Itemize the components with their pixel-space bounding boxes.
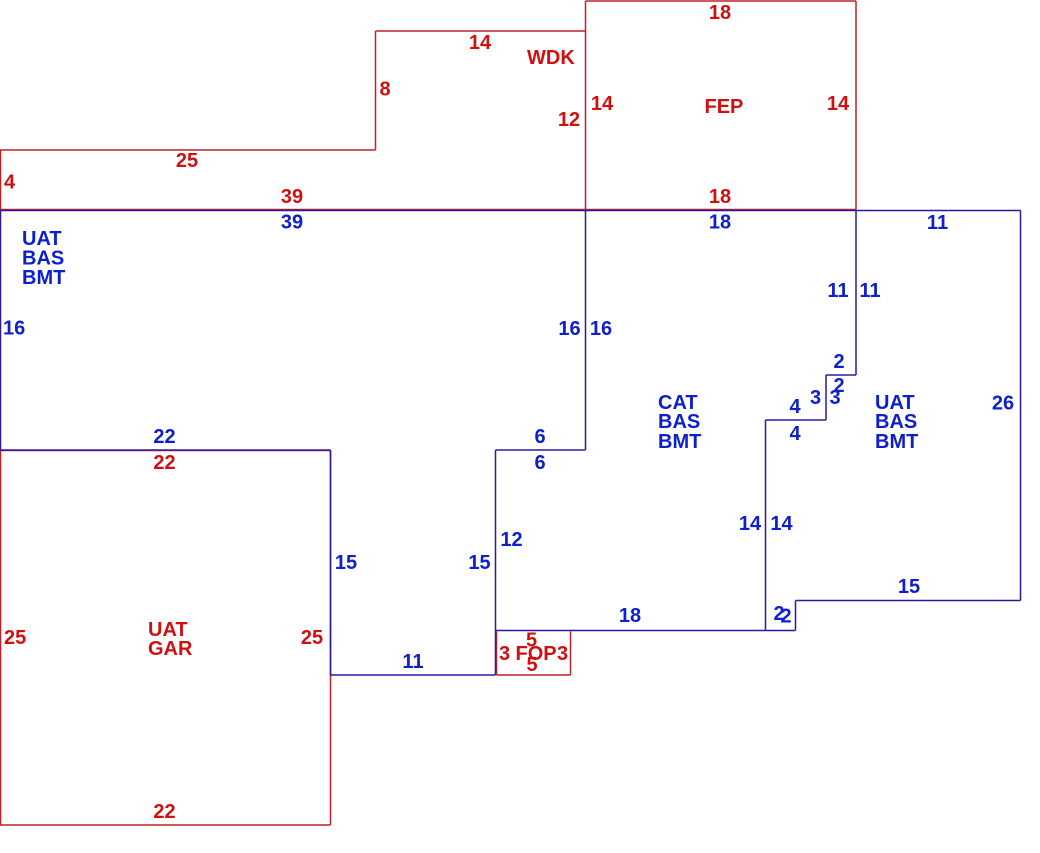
svg-text:18: 18 bbox=[619, 605, 641, 627]
svg-text:18: 18 bbox=[709, 186, 731, 208]
svg-text:15: 15 bbox=[898, 576, 920, 598]
svg-text:39: 39 bbox=[281, 186, 303, 208]
svg-text:16: 16 bbox=[590, 318, 612, 340]
CAT bottom wall 18 bbox=[496, 630, 796, 632]
step wall 4 bbox=[766, 419, 827, 421]
svg-text:FEP: FEP bbox=[705, 96, 744, 118]
svg-text:16: 16 bbox=[558, 318, 580, 340]
svg-text:BMT: BMT bbox=[875, 431, 918, 453]
svg-text:3: 3 bbox=[557, 643, 568, 665]
svg-text:25: 25 bbox=[176, 150, 198, 172]
svg-text:3: 3 bbox=[810, 387, 821, 409]
svg-text:26: 26 bbox=[992, 393, 1014, 415]
UAT BAS tab bottom wall 11 bbox=[331, 674, 496, 676]
svg-text:25: 25 bbox=[301, 627, 323, 649]
UAT right step wall 2 bbox=[795, 601, 797, 631]
svg-text:3: 3 bbox=[499, 643, 510, 665]
UAT GAR right wall bbox=[330, 451, 332, 826]
svg-text:15: 15 bbox=[468, 552, 490, 574]
UAT right east wall 26 bbox=[1020, 211, 1022, 601]
svg-text:WDK: WDK bbox=[527, 47, 575, 69]
svg-text:14: 14 bbox=[827, 93, 850, 115]
UAT GAR top wall bbox=[0, 450, 331, 452]
FOP right wall bbox=[570, 632, 572, 676]
WDK-FEP bottom wall (red 39+18) bbox=[0, 209, 857, 211]
svg-text:6: 6 bbox=[534, 452, 545, 474]
svg-text:8: 8 bbox=[379, 79, 390, 101]
UAT/CAT shared wall 6 bbox=[496, 449, 586, 451]
UAT BAS tab right wall 15 bbox=[495, 450, 497, 675]
svg-text:18: 18 bbox=[709, 2, 731, 24]
FEP left wall bbox=[585, 1, 587, 210]
main top wall (blue 39+18+11) bbox=[0, 210, 1021, 212]
svg-text:39: 39 bbox=[281, 212, 303, 234]
UAT BAS BMT left wall bbox=[0, 211, 2, 451]
svg-text:14: 14 bbox=[591, 93, 614, 115]
svg-text:4: 4 bbox=[789, 396, 801, 418]
svg-text:16: 16 bbox=[3, 318, 25, 340]
svg-text:BMT: BMT bbox=[658, 431, 701, 453]
svg-text:2: 2 bbox=[780, 606, 791, 628]
FEP top wall bbox=[586, 0, 857, 2]
svg-text:25: 25 bbox=[4, 627, 26, 649]
step wall 2 bbox=[826, 374, 856, 376]
WDK left wall bbox=[375, 31, 377, 150]
svg-text:BMT: BMT bbox=[22, 267, 65, 289]
svg-text:11: 11 bbox=[927, 212, 948, 234]
UAT BAS BMT bottom wall 22 bbox=[0, 449, 331, 451]
svg-text:15: 15 bbox=[335, 552, 357, 574]
svg-text:5: 5 bbox=[526, 654, 537, 676]
svg-text:3: 3 bbox=[829, 387, 840, 409]
svg-text:18: 18 bbox=[709, 212, 731, 234]
svg-text:2: 2 bbox=[833, 351, 844, 373]
FOP bottom wall bbox=[497, 674, 571, 676]
svg-text:4: 4 bbox=[789, 423, 801, 445]
WDK top wall bbox=[376, 30, 586, 32]
step wall 3 bbox=[825, 375, 827, 420]
svg-text:22: 22 bbox=[153, 452, 175, 474]
FEP right wall bbox=[855, 1, 857, 210]
svg-text:12: 12 bbox=[558, 109, 580, 131]
UAT right bottom wall 15 bbox=[796, 600, 1021, 602]
svg-text:11: 11 bbox=[859, 280, 880, 302]
WDK porch step wall bbox=[0, 149, 376, 151]
svg-text:BAS: BAS bbox=[658, 411, 700, 433]
svg-text:11: 11 bbox=[402, 651, 423, 673]
FOP left wall bbox=[496, 632, 498, 676]
CAT/UAT right shared wall 11 bbox=[855, 211, 857, 376]
svg-text:14: 14 bbox=[739, 513, 762, 535]
svg-text:GAR: GAR bbox=[148, 638, 193, 660]
svg-text:4: 4 bbox=[4, 172, 16, 194]
svg-text:BAS: BAS bbox=[875, 411, 917, 433]
svg-text:14: 14 bbox=[770, 513, 793, 535]
WDK far left wall bbox=[0, 150, 2, 210]
svg-text:12: 12 bbox=[500, 529, 522, 551]
UAT BAS tab left wall 15 bbox=[330, 450, 332, 675]
UAT GAR bottom wall bbox=[0, 824, 331, 826]
CAT/UAT right shared wall 14 bbox=[765, 420, 767, 631]
UAT/CAT shared wall 16 bbox=[585, 211, 587, 451]
svg-text:22: 22 bbox=[153, 801, 175, 823]
svg-text:6: 6 bbox=[534, 426, 545, 448]
svg-text:11: 11 bbox=[827, 280, 848, 302]
svg-text:14: 14 bbox=[469, 32, 492, 54]
svg-text:22: 22 bbox=[153, 426, 175, 448]
UAT GAR left wall bbox=[0, 451, 2, 826]
